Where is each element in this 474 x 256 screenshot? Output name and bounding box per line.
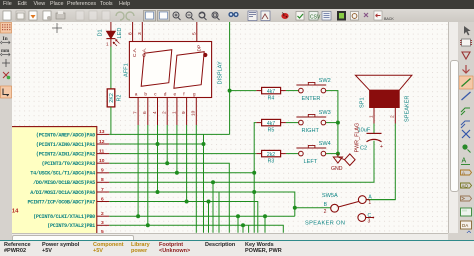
svg-text:P14: P14 bbox=[12, 209, 19, 215]
svg-text:b: b bbox=[144, 91, 147, 97]
wire riser x213 bbox=[212, 182, 214, 233]
svg-text:GND: GND bbox=[331, 166, 343, 172]
display top pin 8 (C.A.) bbox=[127, 22, 133, 42]
svg-text:RIGHT: RIGHT bbox=[302, 128, 320, 134]
wire SW5A common feed bbox=[295, 207, 331, 209]
svg-text:R5: R5 bbox=[268, 128, 275, 134]
svg-text:10uF: 10uF bbox=[358, 128, 371, 134]
wire SW3 to ground bus bbox=[326, 122, 338, 124]
wire segment c vertical bbox=[157, 125, 159, 192]
wire PB1 row, riser down bbox=[109, 225, 283, 233]
wire PA3 row, riser down bbox=[109, 163, 229, 233]
svg-text:(PCINT2/AIN1/ADC2)PA2: (PCINT2/AIN1/ADC2)PA2 bbox=[36, 152, 95, 158]
svg-text:SPEAKER: SPEAKER bbox=[405, 96, 411, 122]
wire riser x238 bbox=[237, 216, 239, 233]
power flag PWR_FLAG bbox=[338, 123, 361, 166]
wire PA6 row to SW5A common riser bbox=[109, 192, 294, 216]
svg-text:D1: D1 bbox=[98, 29, 104, 36]
MCU IC1 ATtiny (body clipped at left) bbox=[0, 127, 97, 239]
wire +5V riser to R4 and PA0 bbox=[229, 22, 231, 134]
svg-text:DISPLAY: DISPLAY bbox=[217, 61, 223, 84]
svg-text:d: d bbox=[164, 91, 167, 97]
wire segment a vertical bbox=[137, 125, 139, 216]
svg-text:(PCINT0/AREF/ADC0)PA0: (PCINT0/AREF/ADC0)PA0 bbox=[36, 132, 95, 138]
svg-text:5: 5 bbox=[192, 32, 198, 35]
svg-text:PCINT7/ICP/OC0B/ADC7)PA7: PCINT7/ICP/OC0B/ADC7)PA7 bbox=[27, 199, 95, 205]
wire PA0 row bbox=[109, 133, 229, 135]
resistor R3 2k2 bbox=[256, 150, 286, 164]
svg-text:R2: R2 bbox=[117, 95, 123, 102]
wire PA5 row to capacitor C2 bbox=[109, 141, 374, 183]
wire riser x248.6 bbox=[248, 225, 250, 233]
wire riser to R4 bbox=[230, 90, 257, 92]
capacitor C2 10uF bbox=[358, 128, 383, 152]
svg-text:BACK: BACK bbox=[384, 17, 394, 21]
svg-text:7: 7 bbox=[133, 111, 139, 114]
svg-text:SW2: SW2 bbox=[319, 78, 331, 84]
svg-text:8: 8 bbox=[101, 177, 104, 183]
svg-text:1: 1 bbox=[368, 115, 374, 118]
svg-text:C.A.: C.A. bbox=[132, 48, 138, 57]
wire segment d vertical bbox=[166, 125, 168, 163]
svg-text:DP: DP bbox=[197, 45, 203, 52]
svg-text:SPEAKER ON: SPEAKER ON bbox=[305, 221, 345, 227]
wire PA1 row bbox=[109, 143, 203, 145]
wire R5 to SW3 bbox=[286, 122, 299, 124]
svg-text:1: 1 bbox=[368, 200, 371, 206]
wire R4 to SW2 bbox=[286, 90, 299, 92]
svg-text:ENTER: ENTER bbox=[302, 96, 321, 102]
svg-text:g: g bbox=[193, 92, 196, 97]
wire: LED cathode to R2 bbox=[110, 47, 112, 90]
svg-text:T4/USCK/SCL/T1/ADC4)PA4: T4/USCK/SCL/T1/ADC4)PA4 bbox=[30, 171, 95, 177]
svg-text:3: 3 bbox=[368, 219, 371, 225]
svg-text:A/DI/MOSI/OC1A/ADC6)PA6: A/DI/MOSI/OC1A/ADC6)PA6 bbox=[30, 190, 95, 196]
svg-text:2: 2 bbox=[390, 115, 396, 118]
svg-text:A: A bbox=[462, 171, 465, 176]
svg-text:e: e bbox=[174, 92, 177, 97]
wire segment b vertical bbox=[147, 125, 149, 225]
svg-text:3: 3 bbox=[137, 32, 143, 35]
svg-text:4k7: 4k7 bbox=[267, 89, 275, 95]
svg-text:13: 13 bbox=[99, 129, 105, 135]
svg-text:4: 4 bbox=[152, 111, 158, 114]
svg-text:DA: DA bbox=[462, 223, 468, 228]
speaker SP1 bbox=[355, 75, 412, 123]
svg-text:/DO/MISO/OC1B/ADC5)PA5: /DO/MISO/OC1B/ADC5)PA5 bbox=[33, 180, 95, 186]
switch SW3 RIGHT bbox=[296, 110, 330, 134]
wire riser x243 bbox=[242, 225, 244, 233]
wire: R2 to PA0 row bbox=[110, 107, 112, 134]
junction dots bbox=[136, 89, 340, 228]
svg-text:7: 7 bbox=[101, 187, 104, 193]
svg-text:(PCINT9/XTAL2)PB1: (PCINT9/XTAL2)PB1 bbox=[47, 223, 95, 229]
MCU pin numbers bbox=[99, 129, 105, 235]
svg-text:2: 2 bbox=[101, 211, 104, 217]
wire R3 to SW4 bbox=[286, 153, 299, 155]
svg-text:+: + bbox=[380, 144, 383, 150]
switch SW5A SPEAKER ON bbox=[305, 193, 374, 227]
wire speaker pin1 to C2 bbox=[373, 124, 375, 134]
svg-text:10: 10 bbox=[191, 110, 197, 116]
wire segment e vertical bbox=[176, 125, 178, 173]
wire PA2 row to R3 bbox=[109, 153, 256, 155]
svg-text:LED: LED bbox=[117, 28, 123, 39]
wire riser x265 bbox=[264, 216, 266, 233]
wire SW5A-A to speaker pin2 riser bbox=[370, 199, 396, 201]
wire segment g vertical bbox=[195, 125, 197, 233]
svg-text:3: 3 bbox=[101, 220, 104, 226]
svg-text:SW3: SW3 bbox=[319, 110, 331, 116]
svg-text:R3: R3 bbox=[268, 159, 275, 165]
svg-text:10: 10 bbox=[99, 158, 105, 164]
svg-text:SW5A: SW5A bbox=[322, 193, 338, 199]
svg-text:2K2: 2K2 bbox=[109, 93, 115, 103]
LED D1 bbox=[98, 28, 124, 47]
resistor R5 4k7 bbox=[256, 119, 286, 133]
svg-text:8: 8 bbox=[127, 32, 133, 35]
svg-text:1: 1 bbox=[106, 42, 109, 47]
svg-text:9: 9 bbox=[181, 111, 187, 114]
wire SW2 to ground bus bbox=[326, 91, 338, 154]
wire riser x208.5 bbox=[208, 202, 210, 233]
sheet origin crosshair bbox=[52, 23, 62, 33]
svg-text:a: a bbox=[135, 92, 138, 97]
svg-text:2: 2 bbox=[324, 209, 327, 215]
svg-text:C2: C2 bbox=[360, 146, 367, 152]
wire riser x203.5 bbox=[203, 134, 205, 232]
svg-text:(PCINT3/T0/ADC3)PA3: (PCINT3/T0/ADC3)PA3 bbox=[42, 161, 96, 167]
display top pin 5 (DP) bbox=[192, 22, 198, 42]
wire PA7 row, riser down bbox=[109, 202, 257, 233]
svg-text:C.A.: C.A. bbox=[142, 48, 148, 57]
wire SW4 to ground bus bbox=[326, 153, 338, 155]
resistor R2 2K2 bbox=[107, 89, 123, 107]
wire: vertical from sheet top to LED D1 anode bbox=[110, 22, 112, 31]
svg-text:(PCINT8/CLKI/XTAL1)PB0: (PCINT8/CLKI/XTAL1)PB0 bbox=[33, 214, 95, 220]
svg-text:CSV: CSV bbox=[310, 15, 321, 21]
display AFF1 body bbox=[123, 42, 223, 98]
svg-text:2: 2 bbox=[162, 111, 168, 114]
svg-text:R4: R4 bbox=[268, 96, 275, 102]
svg-text:A: A bbox=[462, 158, 467, 165]
display top pin 3 (C.A.) bbox=[137, 22, 143, 42]
net wires bbox=[109, 22, 395, 233]
switch SW2 ENTER bbox=[296, 78, 330, 102]
svg-text:AFF1: AFF1 bbox=[123, 63, 129, 77]
svg-text:(PCINT1/AIN0/ADC1)PA1: (PCINT1/AIN0/ADC1)PA1 bbox=[36, 142, 95, 148]
wire riser x219 bbox=[218, 192, 220, 233]
svg-text:2k2: 2k2 bbox=[267, 152, 275, 158]
ground symbol GND bbox=[331, 154, 343, 172]
svg-text:4k7: 4k7 bbox=[267, 121, 275, 127]
svg-text:SP1: SP1 bbox=[360, 97, 366, 108]
svg-text:6: 6 bbox=[101, 196, 104, 202]
svg-text:SW4: SW4 bbox=[319, 141, 331, 147]
wire PA4 row bbox=[109, 172, 254, 174]
svg-text:1: 1 bbox=[171, 111, 177, 114]
svg-text:6: 6 bbox=[142, 111, 148, 114]
wire R5 drop to PA4 bbox=[254, 123, 256, 233]
svg-text:9: 9 bbox=[101, 168, 104, 174]
resistor R4 4k7 bbox=[256, 87, 286, 101]
wire segment f vertical bbox=[186, 125, 188, 202]
svg-text:In: In bbox=[3, 36, 8, 42]
svg-text:11: 11 bbox=[99, 148, 104, 154]
switch SW4 LEFT bbox=[296, 141, 330, 165]
svg-text:LEFT: LEFT bbox=[304, 159, 318, 165]
MCU pin stubs bbox=[97, 134, 110, 225]
wire PB0 row bbox=[109, 215, 294, 217]
wire speaker pin2 to SW5A-A bbox=[366, 124, 395, 200]
svg-text:12: 12 bbox=[99, 139, 105, 145]
svg-text:AO: AO bbox=[462, 184, 469, 189]
display bottom pin stubs a-g bbox=[138, 98, 196, 126]
